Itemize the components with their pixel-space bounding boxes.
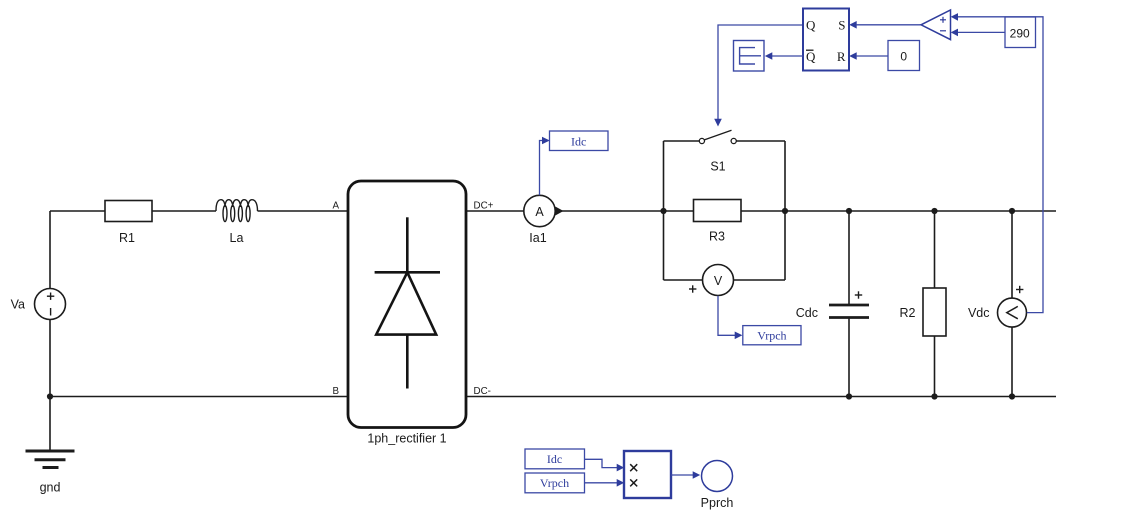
svg-text:V: V <box>714 274 723 288</box>
diode inside rectifier <box>406 217 409 272</box>
arrow into R <box>849 52 857 60</box>
arrow ammeter output <box>556 207 564 216</box>
svg-text:Idc: Idc <box>547 452 562 466</box>
svg-text:Va: Va <box>11 298 25 312</box>
svg-text:0: 0 <box>900 49 907 63</box>
svg-text:A: A <box>535 205 544 219</box>
comparator <box>921 10 951 40</box>
svg-text:Q: Q <box>806 49 816 64</box>
wire Idc to multiplier <box>585 459 617 467</box>
svg-text:Pprch: Pprch <box>701 496 734 510</box>
wire signal Vrpch (blue) <box>718 296 735 336</box>
ground <box>26 450 75 453</box>
output port Pprch <box>702 461 733 492</box>
scope block <box>734 41 765 72</box>
svg-text:S1: S1 <box>710 160 725 174</box>
multiplier block <box>624 451 671 498</box>
junction dots <box>47 393 53 399</box>
wire Qbar to scope <box>772 55 803 57</box>
capacitor Cdc <box>848 211 850 305</box>
wire 0 box to R <box>856 55 888 57</box>
wire signal Vdc to comparator (blue) <box>958 17 1043 313</box>
signal label Vrpch (middle) <box>743 326 801 345</box>
wire top main <box>50 210 105 212</box>
svg-text:gnd: gnd <box>40 481 61 495</box>
ammeter Ia1 <box>524 195 555 226</box>
signal label Idc (bottom) <box>525 449 585 469</box>
svg-text:B: B <box>332 386 339 397</box>
plus sign of voltmeter <box>689 288 696 290</box>
resistor R1 <box>105 201 152 222</box>
resistor R3 <box>694 200 742 222</box>
svg-text:290: 290 <box>1010 27 1030 41</box>
wire bottom main <box>50 396 347 398</box>
svg-text:R3: R3 <box>709 230 725 244</box>
arrow into comparator minus <box>951 29 958 37</box>
svg-text:R1: R1 <box>119 231 135 245</box>
wire Vrpch to multiplier <box>585 482 617 484</box>
svg-text:Ia1: Ia1 <box>529 231 546 245</box>
arrow into S <box>849 21 857 29</box>
switch S1 branch <box>663 141 665 211</box>
svg-text:Vdc: Vdc <box>968 306 990 320</box>
constant 290 block <box>1005 17 1036 48</box>
wire multiplier to Pprch <box>671 474 693 476</box>
wire gate control into S1 (blue) <box>718 25 803 119</box>
svg-text:S: S <box>838 17 845 32</box>
svg-text:R: R <box>837 49 846 64</box>
arrow into comparator plus <box>951 13 958 21</box>
svg-text:Vrpch: Vrpch <box>757 328 786 342</box>
signal label Vrpch (bottom) <box>525 473 585 493</box>
wire 290 to comparator minus <box>958 31 1005 33</box>
rectifier block 1ph_rectifier 1 <box>348 181 466 428</box>
svg-text:A: A <box>332 201 339 212</box>
voltage source Va <box>35 289 66 320</box>
svg-text:Q: Q <box>806 18 816 33</box>
inductor La <box>216 200 258 211</box>
wire comparator to S <box>856 24 921 26</box>
svg-text:La: La <box>230 231 244 245</box>
signal label Idc (top) <box>550 131 609 151</box>
wire signal Idc from ammeter (blue) <box>540 141 543 196</box>
voltmeter Vdc <box>1011 211 1013 299</box>
voltmeter V branch <box>663 211 665 280</box>
svg-text:1ph_rectifier 1: 1ph_rectifier 1 <box>367 432 446 446</box>
wire Va vertical <box>49 211 51 289</box>
svg-text:Vrpch: Vrpch <box>540 476 569 490</box>
svg-text:DC+: DC+ <box>474 201 494 212</box>
svg-text:R2: R2 <box>900 306 916 320</box>
flip-flop SR latch <box>803 9 849 71</box>
resistor R2 <box>934 211 936 288</box>
svg-text:Idc: Idc <box>571 135 586 149</box>
svg-text:Cdc: Cdc <box>796 306 818 320</box>
constant 0 block <box>888 41 920 71</box>
svg-text:DC-: DC- <box>474 386 491 397</box>
